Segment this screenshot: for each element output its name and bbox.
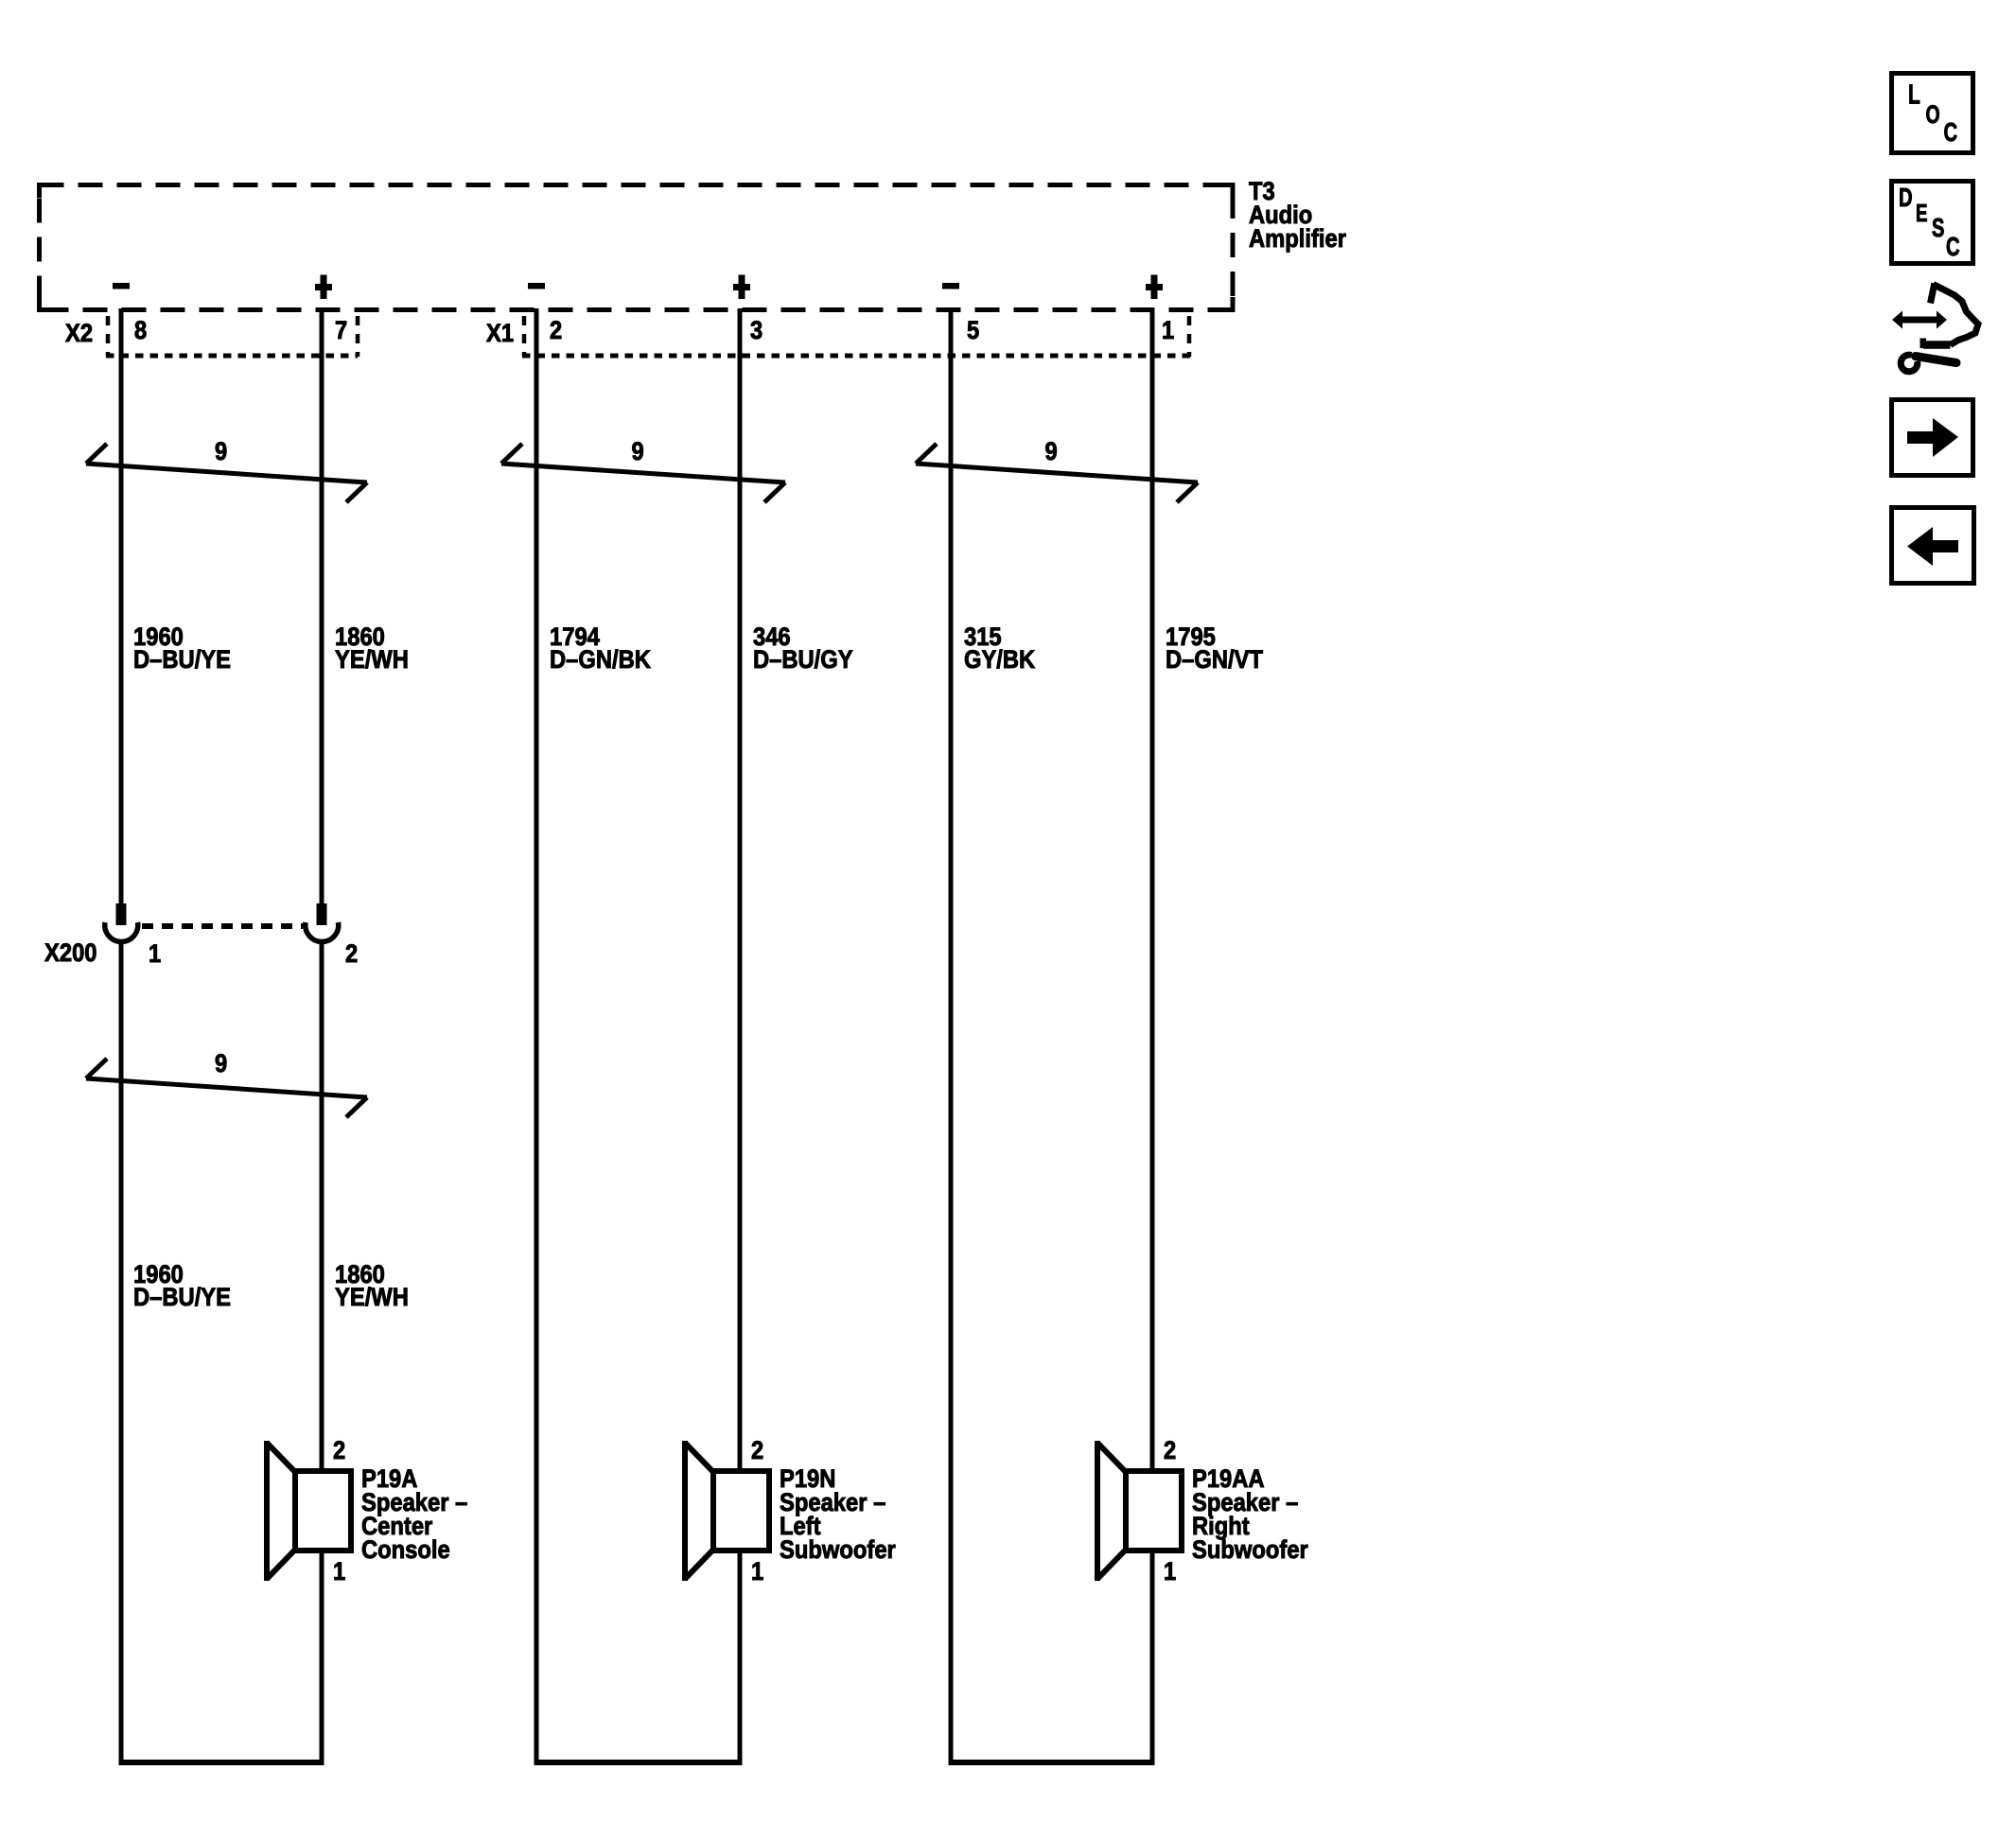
svg-text:D–GN/BK: D–GN/BK: [550, 645, 651, 674]
wire gauge 9 mark pair 3: [916, 444, 1198, 502]
speaker P19N Left Subwoofer: [685, 1441, 769, 1581]
svg-text:9: 9: [1045, 437, 1058, 465]
icon LOC box: [1892, 74, 1973, 153]
wire 1960 lower segment: [119, 940, 124, 1765]
svg-text:O: O: [1926, 100, 1940, 129]
amplifier T3 dashed box: [40, 185, 1234, 310]
minus polarity pin 2: [528, 283, 545, 289]
svg-text:Subwoofer: Subwoofer: [780, 1535, 896, 1564]
speaker P19AA Right Subwoofer: [1097, 1441, 1182, 1581]
wire gauge 9 mark pair 1 lower: [86, 1059, 367, 1117]
svg-text:X2: X2: [65, 319, 93, 347]
svg-text:D–GN/VT: D–GN/VT: [1166, 645, 1263, 674]
wire gauge 9 mark pair 1 upper: [86, 444, 367, 502]
svg-text:YE/WH: YE/WH: [335, 1283, 409, 1311]
wire 1960 upper segment: [119, 308, 124, 905]
svg-text:YE/WH: YE/WH: [335, 645, 409, 674]
svg-text:X1: X1: [486, 319, 514, 347]
wire gauge 9 mark pair 2: [501, 444, 785, 502]
svg-text:Console: Console: [361, 1535, 450, 1564]
svg-text:X200: X200: [44, 938, 97, 967]
icon wrench: [1901, 355, 1956, 372]
svg-text:3: 3: [750, 316, 763, 344]
icon back arrow box: [1892, 508, 1974, 584]
svg-text:D–BU/GY: D–BU/GY: [753, 645, 853, 674]
wire from P19N pin 1: [738, 1552, 743, 1765]
icon forward arrow box: [1892, 400, 1973, 476]
svg-text:S: S: [1932, 213, 1944, 242]
svg-text:8: 8: [134, 316, 147, 344]
svg-text:L: L: [1908, 80, 1920, 111]
svg-text:2: 2: [550, 316, 562, 344]
minus polarity pin 8: [113, 283, 130, 289]
svg-text:1: 1: [1164, 1557, 1176, 1586]
svg-text:Subwoofer: Subwoofer: [1192, 1535, 1308, 1564]
wire 1860 lower segment: [320, 940, 324, 1469]
svg-text:9: 9: [632, 437, 644, 465]
svg-text:C: C: [1946, 232, 1960, 261]
plus polarity pin 7: [315, 275, 332, 300]
plus polarity pin 1: [1146, 275, 1163, 300]
minus polarity pin 5: [942, 283, 959, 289]
svg-text:D: D: [1899, 183, 1913, 212]
svg-text:1: 1: [149, 939, 161, 968]
icon DESC box: [1892, 182, 1973, 264]
svg-text:5: 5: [967, 316, 979, 344]
svg-text:2: 2: [345, 939, 358, 968]
connector X1 dashed outline: [522, 316, 527, 357]
connector X200 terminal 1: [105, 903, 138, 941]
speaker P19A Center Console: [267, 1441, 351, 1581]
wire 1795 upper segment: [1150, 308, 1155, 1469]
wire 315: [949, 308, 954, 1765]
svg-text:GY/BK: GY/BK: [964, 645, 1036, 674]
wire from P19A pin 1: [320, 1552, 324, 1765]
svg-text:C: C: [1944, 117, 1958, 147]
X200 mating dash line: [142, 923, 303, 929]
connector X2 dashed outline: [106, 316, 111, 357]
svg-text:2: 2: [333, 1436, 345, 1464]
return wire pair 1: [119, 1760, 324, 1765]
wire from P19AA pin 1: [1150, 1552, 1155, 1765]
svg-text:1: 1: [333, 1557, 345, 1586]
icon double arrow: [1892, 311, 1947, 329]
wire 346 upper segment: [738, 308, 743, 1469]
svg-text:7: 7: [335, 316, 347, 344]
svg-text:E: E: [1916, 199, 1928, 227]
svg-text:2: 2: [1164, 1436, 1176, 1464]
svg-text:9: 9: [215, 1049, 227, 1078]
svg-text:D–BU/YE: D–BU/YE: [133, 1283, 231, 1311]
svg-text:Amplifier: Amplifier: [1249, 224, 1346, 253]
wire 1860 upper segment: [320, 308, 324, 905]
svg-text:1: 1: [751, 1557, 763, 1586]
connector X200 terminal 2: [306, 903, 339, 941]
return wire pair 2: [535, 1760, 743, 1765]
wire 1794: [535, 308, 539, 1765]
svg-text:1: 1: [1162, 316, 1174, 344]
svg-text:D–BU/YE: D–BU/YE: [133, 645, 231, 674]
svg-text:2: 2: [751, 1436, 763, 1464]
icon vehicle outline: [1931, 284, 1979, 345]
return wire pair 3: [949, 1760, 1155, 1765]
plus polarity pin 3: [733, 275, 750, 300]
svg-text:9: 9: [215, 437, 227, 465]
